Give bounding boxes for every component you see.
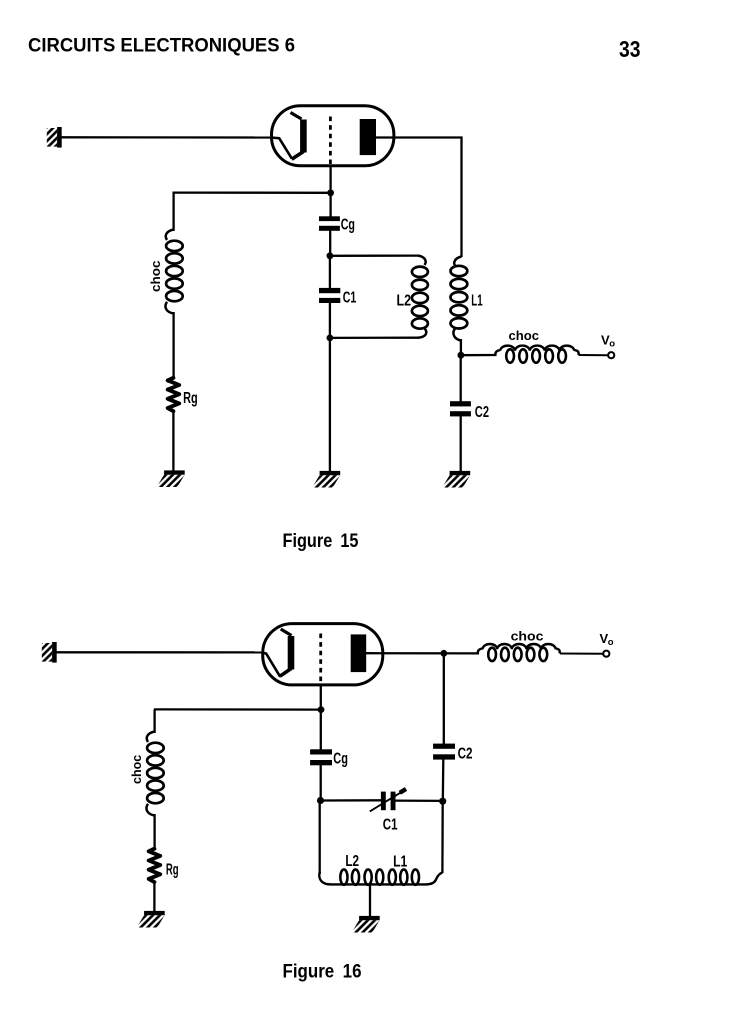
- tank coil L2-L1 (fig16): [319, 869, 442, 884]
- svg-text:CIRCUITS ELECTRONIQUES 6: CIRCUITS ELECTRONIQUES 6: [28, 36, 295, 57]
- tube V2 cathode lead: [262, 652, 280, 676]
- wire: node to left branch (fig15): [173, 191, 331, 193]
- wire: tank bottom to L2 (fig15): [330, 337, 419, 339]
- node: tank top (fig15): [327, 252, 334, 259]
- wire: node down to C2 (fig16): [443, 653, 445, 744]
- svg-text:choc: choc: [148, 261, 163, 293]
- wire: choke to Rg (fig15): [172, 312, 174, 379]
- wire: Rg to ground (fig16): [153, 882, 155, 912]
- svg-text:o: o: [608, 637, 614, 648]
- wire: anode to top-right corner (fig15): [376, 138, 462, 258]
- input wall terminal (fig15): [47, 127, 62, 148]
- wire: node down to C2 (fig15): [460, 355, 462, 402]
- wire: left node to C1 (fig16): [321, 799, 382, 802]
- resistor Rg (fig15): [168, 378, 180, 411]
- svg-text:choc: choc: [129, 755, 144, 784]
- ground (fig15 left): [157, 470, 185, 487]
- node: grid junction (fig15): [327, 189, 334, 196]
- wire: choke to Vo terminal (fig15): [579, 354, 609, 356]
- tube V2 grid (dashed): [319, 634, 322, 684]
- wire: coil right end up to right node (fig16): [441, 801, 444, 873]
- input wall terminal (fig16): [42, 642, 57, 663]
- ground (fig15 right): [442, 471, 470, 488]
- tube V2 envelope (fig16): [263, 624, 383, 685]
- wire: Rg to ground (fig15): [172, 411, 174, 471]
- svg-text:Cg: Cg: [333, 751, 348, 768]
- wire: left branch vertical to choke (fig15): [172, 193, 174, 231]
- wire: grid node to left branch (fig16): [154, 708, 321, 710]
- tube V1 grid (dashed): [329, 117, 332, 165]
- svg-text:Figure 15: Figure 15: [283, 531, 359, 552]
- wire: tank top to L2 (fig15): [330, 254, 419, 256]
- node: grid junction (fig16): [318, 706, 325, 713]
- ground (fig16 left): [137, 911, 165, 928]
- svg-text:L1: L1: [393, 854, 408, 871]
- wire: wall to tube (fig16): [57, 651, 264, 653]
- wire: C2 down to right node (fig16): [442, 759, 445, 802]
- node: anode tank junction (fig15): [458, 352, 465, 359]
- wire: grid lead down to node (fig15): [329, 166, 331, 217]
- node: tank bottom (fig15): [327, 335, 334, 342]
- tube V1 cathode plate: [291, 113, 302, 120]
- RF choke horizontal (fig15): [495, 346, 578, 363]
- wire: left branch vertical (fig16): [153, 709, 155, 733]
- svg-text:Cg: Cg: [341, 217, 355, 234]
- RF choke horizontal (fig16): [478, 644, 560, 661]
- svg-text:C2: C2: [475, 404, 489, 421]
- wire: choke to Vo (fig16): [560, 653, 603, 655]
- wire: Cg to left tank node (fig16): [320, 765, 322, 802]
- wire: node to choke (fig15): [461, 354, 497, 357]
- svg-text:choc: choc: [509, 328, 540, 343]
- terminal Vo (fig16): [603, 651, 609, 657]
- svg-text:C2: C2: [458, 746, 473, 763]
- svg-text:Rg: Rg: [183, 390, 198, 407]
- capacitor C2 (fig15): [450, 401, 471, 406]
- capacitor Cg (fig15): [319, 216, 340, 221]
- node: left tank junction (fig16): [317, 797, 324, 804]
- wire: C2 to ground (fig15): [460, 416, 462, 472]
- svg-text:Rg: Rg: [166, 862, 179, 879]
- wire: L1 bottom to node (fig15): [460, 339, 462, 356]
- inductor L2 (fig15): [412, 256, 428, 338]
- svg-text:C1: C1: [343, 289, 357, 306]
- svg-text:33: 33: [619, 36, 641, 62]
- svg-text:L2: L2: [397, 293, 412, 310]
- svg-text:L2: L2: [345, 853, 359, 870]
- tube V1 envelope (fig15): [272, 106, 394, 166]
- svg-text:Figure 16: Figure 16: [283, 962, 362, 983]
- tube V2 cathode plate: [281, 629, 292, 636]
- svg-text:o: o: [609, 338, 615, 349]
- node: right tank junction (fig16): [439, 798, 446, 805]
- wire: tank top node down to C1 (fig15): [329, 256, 331, 289]
- tube V2 anode plate: [351, 634, 367, 672]
- variable capacitor C1 (fig16): [381, 792, 386, 811]
- wire: coil centre tap to ground (fig16): [369, 884, 371, 916]
- svg-text:C1: C1: [383, 817, 398, 834]
- resistor Rg (fig16): [149, 849, 161, 882]
- wire: C1 to right node (fig16): [395, 799, 443, 802]
- capacitor C2 (fig16): [433, 744, 455, 749]
- wire: grid lead down (fig16): [320, 684, 322, 751]
- grid choke choc (fig15, vertical): [165, 230, 182, 314]
- node: anode output junction (fig16): [440, 650, 447, 657]
- grid choke choc (fig16, vertical): [146, 732, 163, 816]
- terminal Vo (fig15): [608, 352, 614, 358]
- wire: wall to tube grid-cathode (fig15): [62, 136, 273, 138]
- capacitor Cg (fig16): [310, 749, 332, 754]
- inductor L1 (fig15): [451, 257, 468, 341]
- tube V1 anode plate: [360, 119, 376, 155]
- capacitor C1 (fig15): [319, 288, 340, 293]
- wire: Cg to tank node (fig15): [329, 230, 331, 257]
- ground (fig16 tank): [352, 916, 380, 933]
- tube V1 cathode lead: [271, 138, 292, 159]
- wire: left node down to tank coil (fig16): [319, 801, 321, 875]
- svg-text:choc: choc: [511, 628, 544, 643]
- variable capacitor C1 arrow: [370, 791, 404, 812]
- ground (fig15 middle): [312, 471, 340, 488]
- wire: tank bottom to ground (fig15): [329, 338, 331, 472]
- wire: choke to Rg (fig16): [153, 814, 155, 850]
- svg-text:L1: L1: [471, 293, 483, 310]
- wire: anode to choke (fig16): [366, 652, 479, 655]
- wire: C1 to tank bottom node (fig15): [329, 302, 331, 339]
